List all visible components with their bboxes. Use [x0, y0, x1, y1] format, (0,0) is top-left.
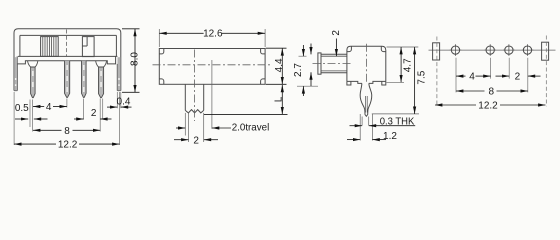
- svg-text:2: 2: [91, 108, 97, 119]
- svg-text:12.2: 12.2: [58, 140, 78, 151]
- svg-text:2.7: 2.7: [293, 63, 304, 77]
- svg-text:0.5: 0.5: [15, 103, 29, 114]
- svg-text:4: 4: [469, 71, 475, 82]
- svg-text:0.4: 0.4: [117, 96, 131, 107]
- svg-text:1.2: 1.2: [383, 131, 397, 142]
- svg-text:2: 2: [193, 135, 199, 146]
- svg-text:4.4: 4.4: [274, 58, 285, 72]
- svg-text:12.6: 12.6: [203, 29, 223, 40]
- svg-text:0.3 THK: 0.3 THK: [380, 116, 415, 127]
- svg-text:8: 8: [64, 126, 70, 137]
- svg-text:2: 2: [331, 30, 342, 36]
- svg-text:4.7: 4.7: [403, 58, 414, 72]
- svg-text:2.0travel: 2.0travel: [232, 122, 270, 133]
- svg-text:8.0: 8.0: [129, 52, 140, 66]
- svg-text:2: 2: [515, 71, 521, 82]
- svg-text:8: 8: [489, 86, 495, 97]
- svg-text:L: L: [273, 96, 284, 102]
- svg-text:4: 4: [46, 102, 52, 113]
- svg-text:12.2: 12.2: [478, 101, 498, 112]
- svg-text:7.5: 7.5: [417, 70, 428, 84]
